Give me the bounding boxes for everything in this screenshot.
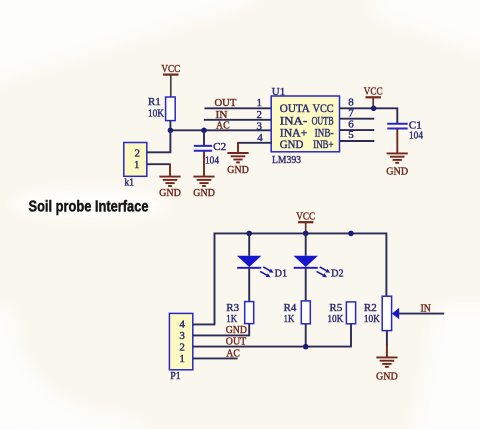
label R4 [284,302,297,314]
potentiometer R2 body [382,296,391,330]
label R5 [329,302,342,314]
svg-text:GND: GND [386,166,408,178]
svg-text:2: 2 [257,109,263,121]
svg-text:OUTB: OUTB [312,115,334,127]
svg-text:2: 2 [134,147,140,159]
P1 pin 2 number [179,342,185,354]
label R3 [226,302,239,314]
ground stem (k1 pin1) [169,163,171,176]
wire U1 pin6 stub [340,129,375,131]
value 104 (C2) [205,154,219,166]
value 1K (R3) [226,313,237,325]
svg-text:k1: k1 [125,176,135,188]
wire P1 pin2 to R4/R5 [193,346,352,348]
svg-text:R5: R5 [329,302,342,314]
pin number 7 (U1) [348,107,354,119]
net label IN [216,109,228,121]
svg-text:GND: GND [226,324,247,336]
resistor R4 body [301,301,310,324]
capacitor C2 plates [194,146,212,151]
op-amp comparator U1 body [271,96,339,152]
wire k1 pin2 to AC node [147,130,171,152]
wire P1 pin4 to bus [193,323,216,325]
svg-text:INA+: INA+ [280,127,308,139]
svg-text:3: 3 [257,120,263,132]
wire R2 bottom [386,331,388,346]
value 10K (R2) [364,313,380,325]
label C2 [213,141,226,153]
wire bus to D2 anode [305,233,307,255]
power VCC net symbol (bottom) [296,211,315,234]
value 104 (C1) [409,130,423,142]
svg-text:C2: C2 [213,141,226,153]
LED D1 [237,256,261,268]
label R2 [364,302,377,314]
svg-text:GND: GND [376,370,398,382]
wire VCC bus (left drop, horizontal, right drop) [215,233,387,324]
designator D1 [275,267,288,279]
svg-text:VCC: VCC [313,103,334,115]
svg-text:4: 4 [179,319,185,331]
net label OUT (P1 pin2) [226,336,247,348]
junction R1/k1 node [168,128,174,134]
net label OUT [215,97,237,109]
net label AC [216,120,230,132]
pin number 8 (U1) [348,97,354,109]
wire IN to R2 wiper [398,313,444,315]
power VCC net symbol (top right) [364,86,383,109]
svg-text:GND: GND [193,187,215,199]
power VCC net symbol (above R1) [161,63,180,97]
net label IN (pot input) [421,303,431,315]
pin number 5 (U1) [348,129,354,141]
svg-text:VCC: VCC [296,211,315,223]
svg-text:R4: R4 [284,302,297,314]
ground symbol GND (C2) [193,177,215,200]
svg-text:P1: P1 [170,370,181,382]
svg-text:GND: GND [159,187,181,199]
capacitor C2 top stem [203,130,205,145]
svg-text:1: 1 [179,353,185,365]
svg-text:1: 1 [134,159,140,171]
P1 pin 4 number [179,319,185,331]
k1 pin 1 number [134,159,140,171]
pin number 1 (U1) [257,97,263,109]
ground symbol GND (k1) [159,177,181,200]
wire net OUT (to U1 pin 1) [205,107,272,109]
junction C2 node [201,128,207,134]
svg-text:R2: R2 [364,302,377,314]
k1 pin 2 number [134,147,140,159]
designator U1 [272,86,285,98]
value 1K (R4) [284,313,295,325]
svg-text:OUTA: OUTA [280,103,310,115]
svg-text:104: 104 [205,154,219,166]
svg-text:INA-: INA- [280,115,308,127]
wire R5 bottom [350,324,352,347]
wire net AC horizontal (R1/k1/C2 to U1 pin 3) [170,129,272,131]
svg-text:VCC: VCC [364,86,383,98]
svg-text:2: 2 [179,342,185,354]
junction R5 bus node [348,231,354,237]
connector P1 body [169,313,192,369]
junction VCC/D2 bus node [303,231,309,237]
ground stem (C1) [396,129,398,153]
part number LM393 [272,154,301,166]
LED D2 [294,256,318,268]
pin number 6 (U1) [348,119,354,131]
svg-text:INB-: INB- [315,127,334,139]
wire P1 pin1 stub [193,357,238,359]
svg-text:Soil probe Interface: Soil probe Interface [29,198,149,215]
svg-text:3: 3 [179,330,185,342]
ground stem (U1 pin4) [237,142,239,153]
svg-text:5: 5 [348,129,354,141]
svg-text:R1: R1 [148,96,161,108]
wire net IN (to U1 pin 2) [204,119,272,121]
connector k1 body [124,143,147,177]
value 10K (R5) [327,313,343,325]
svg-text:AC: AC [216,120,230,132]
junction D1 bus node [246,231,252,237]
svg-text:INB+: INB+ [313,139,334,151]
value 10K (R1) [148,108,164,120]
wire U1 pin4 to ground [238,142,272,144]
title Soil probe Interface [29,198,149,215]
svg-text:10K: 10K [364,313,380,325]
svg-text:104: 104 [409,130,423,142]
label C1 [409,120,422,132]
wire k1 pin1 to ground [147,163,170,165]
ground stem (R2) [386,344,388,357]
wire R1 bottom to node [169,121,171,131]
svg-text:1K: 1K [284,313,295,325]
ground symbol GND (R2) [376,357,398,382]
svg-text:U1: U1 [272,86,285,98]
svg-text:GND: GND [227,164,249,176]
LED D2 emission arrows [317,267,331,277]
svg-text:VCC: VCC [161,63,180,75]
ground symbol GND (C1) [386,153,408,177]
svg-text:1: 1 [257,97,263,109]
wire P1 pin3 to R3 [193,324,249,336]
designator D2 [331,267,344,279]
svg-text:LM393: LM393 [272,154,301,166]
junction VCC/pin8 node [371,106,377,112]
svg-text:R3: R3 [226,302,239,314]
wire U1 pin7 stub [340,118,375,120]
svg-text:10K: 10K [148,108,164,120]
svg-text:IN: IN [421,303,431,315]
ground stem (C2) [203,152,205,177]
ground symbol GND (U1 pin4) [227,153,249,176]
wire U1 pin8 to VCC node [340,107,375,109]
R2 wiper arrow [392,308,399,319]
resistor R3 body [245,302,254,324]
svg-text:GND: GND [280,139,304,151]
pin number 2 (U1) [257,109,263,121]
resistor R1 body [166,97,176,121]
pin number 3 (U1) [257,120,263,132]
U1 pin name text rows [280,103,334,151]
wire D1 cathode to R3 [248,268,250,302]
wire bus to D1 anode [248,233,250,255]
svg-text:D2: D2 [331,267,344,279]
wire D2 cathode to R4 [305,268,307,301]
svg-text:10K: 10K [327,313,343,325]
label R1 [148,96,161,108]
P1 pin 1 number [179,353,185,365]
wire VCC node to C1 [373,108,397,123]
wire U1 pin5 stub [340,140,375,142]
designator P1 [170,370,181,382]
net label GND (P1 pin3) [226,324,247,336]
svg-text:D1: D1 [275,267,288,279]
capacitor C1 plates [387,124,407,129]
LED D1 emission arrows [260,267,274,277]
resistor R5 body [346,302,355,324]
wire R4 bottom [305,324,307,347]
junction R4/OUT node [303,344,309,350]
net label AC (P1 pin1) [226,347,240,359]
pin number 4 (U1) [257,132,263,144]
P1 pin 3 number [179,330,185,342]
designator k1 [125,176,135,188]
